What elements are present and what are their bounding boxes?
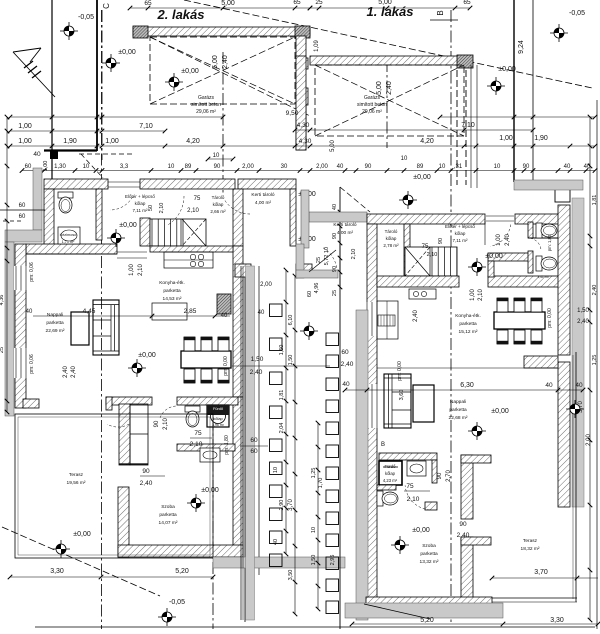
svg-text:90: 90 xyxy=(523,164,530,170)
svg-text:2,40: 2,40 xyxy=(341,361,354,368)
svg-text:1,00: 1,00 xyxy=(105,138,119,145)
svg-text:1,71 m²: 1,71 m² xyxy=(62,240,76,244)
svg-text:parketta: parketta xyxy=(459,321,477,327)
svg-text:75: 75 xyxy=(194,196,201,202)
svg-text:10: 10 xyxy=(83,164,90,170)
svg-text:25: 25 xyxy=(315,0,323,6)
svg-text:2,10: 2,10 xyxy=(351,249,357,260)
svg-text:Szoba: Szoba xyxy=(422,543,436,549)
svg-text:2,40: 2,40 xyxy=(457,532,470,539)
svg-text:pm: 1,80: pm: 1,80 xyxy=(224,435,230,455)
svg-text:10: 10 xyxy=(311,527,317,533)
svg-text:1,81: 1,81 xyxy=(279,390,285,401)
svg-text:1,00: 1,00 xyxy=(470,289,476,301)
svg-text:7,11 m²: 7,11 m² xyxy=(453,238,468,243)
svg-text:2,40: 2,40 xyxy=(71,366,77,378)
svg-text:2,10: 2,10 xyxy=(478,289,484,301)
svg-text:1,30: 1,30 xyxy=(54,164,66,170)
svg-text:2,00: 2,00 xyxy=(260,282,272,288)
svg-text:5,00: 5,00 xyxy=(330,140,336,152)
svg-text:±0,00: ±0,00 xyxy=(413,174,431,181)
svg-text:1,50: 1,50 xyxy=(577,308,589,314)
svg-text:65: 65 xyxy=(293,0,301,6)
svg-text:1,25: 1,25 xyxy=(592,355,598,366)
svg-text:-0,05: -0,05 xyxy=(169,599,185,606)
svg-text:29,06 m²: 29,06 m² xyxy=(362,109,382,115)
svg-text:22,68 m²: 22,68 m² xyxy=(449,415,468,421)
svg-text:1,00: 1,00 xyxy=(496,234,502,246)
svg-text:90: 90 xyxy=(437,472,443,479)
svg-text:10: 10 xyxy=(273,467,279,473)
svg-text:±0,00: ±0,00 xyxy=(181,68,199,75)
svg-text:Nappali: Nappali xyxy=(450,399,466,405)
svg-text:-0,05: -0,05 xyxy=(78,14,94,21)
svg-text:1,90: 1,90 xyxy=(534,135,548,142)
svg-text:2,10: 2,10 xyxy=(187,208,199,214)
svg-text:90: 90 xyxy=(214,164,221,170)
svg-text:2,10: 2,10 xyxy=(159,203,165,214)
svg-text:±0,00: ±0,00 xyxy=(498,66,516,73)
svg-text:3,60: 3,60 xyxy=(399,390,405,401)
svg-text:2,10: 2,10 xyxy=(407,496,420,503)
svg-text:Előtér + lépcső: Előtér + lépcső xyxy=(125,194,155,199)
svg-text:3,96 m²: 3,96 m² xyxy=(212,423,225,427)
svg-text:Konyha-étk.: Konyha-étk. xyxy=(455,313,481,319)
svg-text:kőlap: kőlap xyxy=(135,201,146,206)
svg-text:2,40: 2,40 xyxy=(413,310,419,322)
svg-text:1,25: 1,25 xyxy=(311,468,317,479)
svg-text:5,20: 5,20 xyxy=(420,617,434,624)
svg-text:1,81: 1,81 xyxy=(592,195,598,206)
svg-text:pm: 0,06: pm: 0,06 xyxy=(29,262,35,282)
svg-text:parketta: parketta xyxy=(159,512,177,518)
svg-text:1,50: 1,50 xyxy=(288,355,294,366)
svg-text:10: 10 xyxy=(324,247,330,253)
svg-text:13,32 m²: 13,32 m² xyxy=(420,559,439,565)
svg-text:pm: 1,80: pm: 1,80 xyxy=(547,234,552,251)
svg-text:Garázs: Garázs xyxy=(364,95,381,101)
svg-text:40: 40 xyxy=(337,164,344,170)
svg-text:4,30: 4,30 xyxy=(299,138,312,145)
svg-text:2. lakás: 2. lakás xyxy=(157,7,205,22)
svg-text:60: 60 xyxy=(250,437,258,444)
svg-text:Tároló: Tároló xyxy=(385,229,398,234)
svg-text:B: B xyxy=(436,10,445,15)
svg-text:4,20: 4,20 xyxy=(420,138,434,145)
svg-text:60: 60 xyxy=(19,203,26,209)
svg-text:5,00: 5,00 xyxy=(378,0,392,6)
svg-text:2,70: 2,70 xyxy=(446,470,452,482)
svg-text:60: 60 xyxy=(25,164,32,170)
svg-text:Terasz: Terasz xyxy=(69,472,84,478)
svg-text:±0,00: ±0,00 xyxy=(485,253,503,260)
svg-text:7,11 m²: 7,11 m² xyxy=(133,208,148,213)
svg-text:±0,00: ±0,00 xyxy=(412,527,430,534)
svg-text:25: 25 xyxy=(332,290,338,296)
svg-text:1,00: 1,00 xyxy=(43,161,49,172)
svg-text:3,30: 3,30 xyxy=(550,617,564,624)
svg-text:3,70: 3,70 xyxy=(288,499,294,511)
svg-text:Garázs: Garázs xyxy=(198,95,215,101)
svg-text:1,09: 1,09 xyxy=(314,40,320,52)
svg-text:90: 90 xyxy=(365,164,372,170)
svg-text:25: 25 xyxy=(0,347,5,353)
svg-text:9,50: 9,50 xyxy=(286,110,299,117)
svg-text:9,24: 9,24 xyxy=(518,40,525,54)
svg-text:-0,05: -0,05 xyxy=(569,10,585,17)
svg-text:3,70: 3,70 xyxy=(534,569,548,576)
svg-text:kőlap: kőlap xyxy=(455,231,466,236)
svg-text:40: 40 xyxy=(342,381,350,388)
svg-text:parketta: parketta xyxy=(46,320,64,326)
svg-text:2,40: 2,40 xyxy=(140,480,153,487)
svg-text:40: 40 xyxy=(545,382,553,389)
svg-text:Kézimosó: Kézimosó xyxy=(60,233,77,237)
svg-text:40: 40 xyxy=(26,309,33,315)
svg-text:1,70: 1,70 xyxy=(318,478,324,489)
svg-text:Terasz: Terasz xyxy=(523,538,538,544)
svg-text:2,10: 2,10 xyxy=(163,418,169,430)
svg-text:7,10: 7,10 xyxy=(461,122,475,129)
svg-text:1,00: 1,00 xyxy=(129,264,135,276)
svg-text:Fürdő: Fürdő xyxy=(385,464,397,469)
svg-text:4,23 m²: 4,23 m² xyxy=(383,478,398,483)
svg-text:1,50: 1,50 xyxy=(311,555,317,566)
svg-text:1,41 m²: 1,41 m² xyxy=(537,275,550,279)
svg-text:4,20: 4,20 xyxy=(186,138,200,145)
svg-text:29,06 m²: 29,06 m² xyxy=(196,109,216,115)
svg-text:±0,00: ±0,00 xyxy=(138,352,156,359)
svg-text:2,04: 2,04 xyxy=(279,423,285,434)
svg-text:1,00: 1,00 xyxy=(499,135,513,142)
svg-text:Szoba: Szoba xyxy=(161,504,175,510)
svg-text:5,00: 5,00 xyxy=(376,81,383,95)
svg-text:5,72: 5,72 xyxy=(324,255,330,266)
svg-text:10: 10 xyxy=(168,164,175,170)
svg-text:10: 10 xyxy=(401,156,408,162)
svg-text:Kerti tároló: Kerti tároló xyxy=(251,192,275,198)
svg-text:2,78 m²: 2,78 m² xyxy=(383,243,399,248)
svg-text:parketta: parketta xyxy=(163,288,181,294)
svg-text:±0,00: ±0,00 xyxy=(118,49,136,56)
svg-text:89: 89 xyxy=(417,164,424,170)
svg-text:5,20: 5,20 xyxy=(175,568,189,575)
svg-text:kőlap: kőlap xyxy=(386,236,397,241)
svg-text:2,85: 2,85 xyxy=(184,308,197,315)
svg-text:2,10: 2,10 xyxy=(190,441,203,448)
svg-text:60: 60 xyxy=(19,214,26,220)
svg-text:65: 65 xyxy=(463,0,471,6)
svg-text:kőlap: kőlap xyxy=(213,202,224,207)
svg-text:1,90: 1,90 xyxy=(63,138,77,145)
svg-text:2,00: 2,00 xyxy=(316,164,328,170)
svg-text:19,56 m²: 19,56 m² xyxy=(67,480,86,486)
svg-text:30: 30 xyxy=(281,164,288,170)
svg-text:90: 90 xyxy=(459,521,467,528)
svg-text:2,40: 2,40 xyxy=(386,81,393,95)
svg-text:2,40: 2,40 xyxy=(222,55,229,69)
svg-text:75: 75 xyxy=(422,244,429,250)
svg-text:7,10: 7,10 xyxy=(139,123,153,130)
svg-text:Előtér + lépcső: Előtér + lépcső xyxy=(445,224,475,229)
svg-text:Nappali: Nappali xyxy=(47,312,63,318)
svg-text:90: 90 xyxy=(332,266,338,272)
svg-text:3,3: 3,3 xyxy=(120,164,129,170)
svg-text:1,00: 1,00 xyxy=(18,123,32,130)
svg-text:pm: 0,00: pm: 0,00 xyxy=(397,361,403,381)
svg-text:10: 10 xyxy=(494,164,501,170)
svg-text:4,30: 4,30 xyxy=(297,122,310,129)
svg-text:40: 40 xyxy=(332,204,338,210)
svg-text:60: 60 xyxy=(341,349,349,356)
svg-text:±0,00: ±0,00 xyxy=(119,222,137,229)
svg-text:15,12 m²: 15,12 m² xyxy=(459,329,478,335)
svg-text:5,00: 5,00 xyxy=(221,0,235,7)
svg-text:2,10: 2,10 xyxy=(427,252,438,258)
svg-text:C: C xyxy=(102,3,111,9)
svg-text:4,00 m²: 4,00 m² xyxy=(255,200,272,206)
svg-text:90: 90 xyxy=(142,468,150,475)
svg-text:4,00 m²: 4,00 m² xyxy=(337,230,354,236)
svg-text:75: 75 xyxy=(194,430,202,437)
svg-text:65: 65 xyxy=(144,0,152,7)
svg-text:5,00: 5,00 xyxy=(212,55,219,69)
svg-text:2,40: 2,40 xyxy=(592,285,598,296)
svg-text:2,96: 2,96 xyxy=(330,555,336,566)
svg-text:2,40: 2,40 xyxy=(505,234,511,246)
svg-text:40: 40 xyxy=(575,382,583,389)
svg-text:3,30: 3,30 xyxy=(50,568,64,575)
svg-text:Konyha-étk.: Konyha-étk. xyxy=(159,280,185,286)
svg-text:4,36: 4,36 xyxy=(0,295,5,306)
svg-text:50: 50 xyxy=(148,205,154,211)
svg-text:10: 10 xyxy=(213,153,220,159)
svg-text:1,50: 1,50 xyxy=(279,345,285,356)
svg-text:Kerti tároló: Kerti tároló xyxy=(333,222,357,228)
svg-text:simított beton: simított beton xyxy=(357,102,387,108)
svg-text:Tároló: Tároló xyxy=(212,195,225,200)
svg-text:pm: 0,00: pm: 0,00 xyxy=(547,308,553,328)
svg-text:89: 89 xyxy=(185,164,192,170)
svg-text:kőlap: kőlap xyxy=(385,471,396,476)
svg-text:,31: ,31 xyxy=(454,164,463,170)
svg-text:2,90: 2,90 xyxy=(279,500,285,511)
svg-text:90: 90 xyxy=(154,420,160,427)
svg-text:14,07 m²: 14,07 m² xyxy=(159,520,178,526)
svg-text:18,32 m²: 18,32 m² xyxy=(521,546,540,552)
svg-text:2,00: 2,00 xyxy=(242,164,254,170)
svg-text:kőlap: kőlap xyxy=(213,416,223,421)
svg-text:40: 40 xyxy=(33,151,41,158)
svg-text:90: 90 xyxy=(332,233,338,239)
svg-text:14,53 m²: 14,53 m² xyxy=(163,296,182,302)
svg-text:75: 75 xyxy=(406,483,414,490)
svg-text:1,50: 1,50 xyxy=(251,356,264,363)
svg-text:simított beton: simított beton xyxy=(191,102,221,108)
svg-text:B: B xyxy=(381,442,385,448)
svg-text:1. lakás: 1. lakás xyxy=(367,4,414,19)
svg-text:pm: 0,00: pm: 0,00 xyxy=(223,356,229,376)
svg-text:1,00: 1,00 xyxy=(18,138,32,145)
svg-text:60: 60 xyxy=(307,291,313,297)
svg-text:40: 40 xyxy=(273,539,279,545)
svg-text:4,96: 4,96 xyxy=(314,283,320,294)
svg-text:2,40: 2,40 xyxy=(63,366,69,378)
svg-text:6,10: 6,10 xyxy=(288,315,294,326)
svg-text:60: 60 xyxy=(250,448,258,455)
svg-text:2,66 m²: 2,66 m² xyxy=(210,209,226,214)
svg-text:22,69 m²: 22,69 m² xyxy=(46,328,65,334)
svg-text:±0,00: ±0,00 xyxy=(73,531,91,538)
svg-text:Fürdő: Fürdő xyxy=(213,407,223,411)
svg-text:pm: 0,06: pm: 0,06 xyxy=(29,354,35,374)
svg-text:6,30: 6,30 xyxy=(460,382,474,389)
svg-text:2,40: 2,40 xyxy=(250,369,263,376)
svg-text:90: 90 xyxy=(438,238,444,244)
svg-text:40: 40 xyxy=(564,164,571,170)
svg-text:3,50: 3,50 xyxy=(288,570,294,581)
svg-text:10: 10 xyxy=(439,164,446,170)
svg-text:40: 40 xyxy=(258,310,265,316)
svg-text:parketta: parketta xyxy=(420,551,438,557)
svg-text:±0,00: ±0,00 xyxy=(491,408,509,415)
svg-text:2,10: 2,10 xyxy=(138,264,144,276)
svg-text:parketta: parketta xyxy=(449,407,467,413)
